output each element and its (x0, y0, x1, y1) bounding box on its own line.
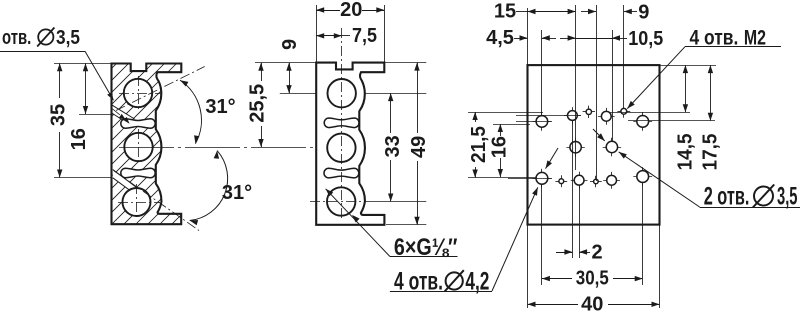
31 deg arc bottom (190, 151, 228, 221)
dim 14,5 (685, 65, 687, 112)
bore hole top (left view) (124, 79, 152, 107)
bore top (middle view) (328, 79, 356, 107)
port channel axis with arrow (112, 109, 127, 121)
svg-text:17,5: 17,5 (700, 134, 722, 171)
svg-text:10,5: 10,5 (628, 28, 663, 50)
31 deg arc top (180, 80, 201, 143)
svg-text:М2: М2 (744, 26, 766, 49)
dim 40 (528, 304, 579, 306)
hole A2 (564, 115, 581, 117)
hole C5 (603, 180, 620, 182)
slot 2 (middle view) (324, 168, 359, 178)
slot between middle and bottom bores (121, 168, 155, 178)
bore hole bottom (left view) (123, 188, 151, 216)
svg-text:14,5: 14,5 (675, 133, 697, 170)
dim 33 (366, 93, 427, 95)
dim 49 (384, 62, 426, 64)
svg-text:9: 9 (638, 2, 649, 24)
leader of label 4 otv 4,2 (492, 187, 538, 291)
bore hole middle (left view) (124, 133, 152, 161)
svg-text:31°: 31° (222, 182, 252, 204)
hole C4 M2 (590, 181, 602, 183)
leader arrow to hole C1 (546, 148, 559, 169)
dim 30,5 (542, 278, 572, 280)
svg-text:15: 15 (494, 0, 516, 22)
slot 1 (middle view) (324, 118, 359, 128)
extension lines below plate (527, 225, 529, 308)
svg-text:отв.: отв. (2, 27, 31, 49)
dim 2 (556, 252, 572, 254)
svg-text:35: 35 (48, 104, 70, 126)
bore bottom (middle view) (327, 187, 355, 215)
dim 25,5 (255, 62, 316, 64)
svg-text:2 отв.: 2 отв. (704, 183, 750, 211)
dim 35 (left) (54, 63, 111, 65)
hole A6 4,2 (633, 121, 652, 123)
svg-text:31°: 31° (205, 96, 235, 118)
dim 4,5 (514, 38, 528, 40)
svg-text:21,5: 21,5 (468, 126, 490, 163)
dim 17,5 (710, 65, 712, 121)
slot between top and middle bores (121, 119, 155, 129)
hole C2 M2 (555, 181, 567, 183)
svg-text:16: 16 (489, 136, 511, 158)
dim 21,5 (475, 112, 477, 122)
inclined port axis top (116, 67, 205, 111)
svg-text:25,5: 25,5 (246, 84, 268, 123)
hatching (0, 58, 350, 230)
vertical centerline (middle view) (341, 28, 343, 221)
diameter symbol (38, 29, 53, 44)
hole C3 (571, 180, 588, 182)
dim 9 (middle view) (289, 63, 291, 93)
svg-text:49: 49 (408, 136, 430, 158)
long horizontal centerline through middle bores of both views (119, 147, 361, 149)
bore middle (middle view) (327, 134, 355, 162)
svg-text:7,5: 7,5 (352, 25, 377, 47)
hole A3 M2 (583, 111, 595, 113)
thread label 6xG1/8 (326, 189, 390, 257)
svg-text:20: 20 (340, 0, 362, 21)
dim 20 (316, 5, 318, 63)
svg-text:16: 16 (68, 128, 90, 150)
svg-text:40: 40 (581, 294, 603, 313)
middle view: side profile of valve body (316, 63, 384, 225)
svg-text:3,5: 3,5 (56, 27, 80, 49)
angled port channel bottom (113, 170, 139, 194)
horizontal centerlines (middle view) (310, 201, 366, 203)
hole C1 4,2 (533, 178, 552, 180)
hole C6 4,2 (633, 176, 652, 178)
dim 15 (516, 11, 528, 13)
svg-text:2: 2 (591, 241, 602, 263)
left view outline (112, 64, 182, 225)
svg-text:4,5: 4,5 (486, 27, 514, 49)
leader arrow to hole B2 (593, 129, 605, 141)
hole A4 (598, 116, 615, 118)
svg-text:33: 33 (382, 135, 404, 157)
extension lines left and right of plate (468, 112, 543, 114)
extended centerlines of holes A1 A2 C1 (516, 115, 581, 117)
hole B1 3,5 (566, 147, 584, 149)
hole A5 M2 (617, 111, 630, 113)
inclined port axis bottom (114, 171, 200, 231)
svg-text:9: 9 (279, 39, 301, 50)
centerlines of bores (left view) (119, 93, 161, 95)
hole A1 4,2 (533, 121, 552, 123)
svg-text:30,5: 30,5 (576, 267, 609, 289)
dim 9 (right view) (581, 11, 596, 13)
hole B2 3,5 (603, 147, 621, 149)
dim 7,5 (316, 35, 342, 37)
svg-text:4 отв.: 4 отв. (690, 26, 739, 49)
extension lines above plate (527, 8, 529, 65)
dim 16 (right view) (500, 124, 502, 136)
dim 10,5 (560, 38, 576, 40)
svg-text:3,5: 3,5 (777, 183, 798, 211)
right view: mounting face plate (528, 65, 660, 225)
angled port channel top (112, 105, 133, 124)
dim 16 (left) (79, 114, 113, 116)
